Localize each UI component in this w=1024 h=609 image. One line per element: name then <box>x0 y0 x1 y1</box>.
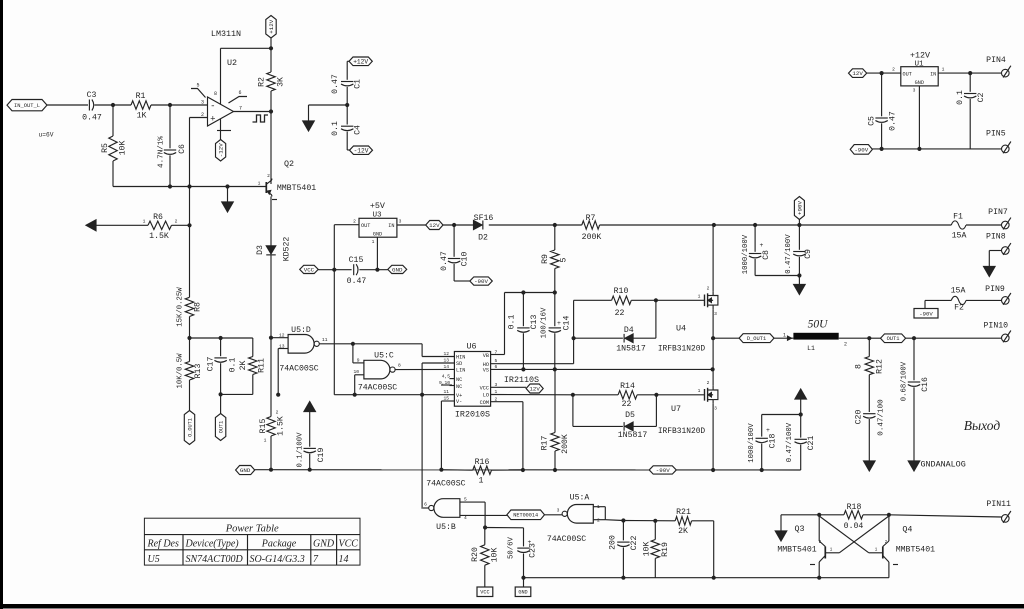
wire Q2 emitter to D3 <box>270 197 272 246</box>
svg-text:F1: F1 <box>953 213 963 222</box>
capacitor C17 <box>207 338 238 394</box>
port D_OUT1 <box>739 334 774 343</box>
power port +12V at C1 <box>349 57 372 66</box>
svg-text:C2: C2 <box>977 93 986 103</box>
svg-text:C17: C17 <box>207 357 216 372</box>
svg-text:3: 3 <box>399 219 402 225</box>
svg-text:R13: R13 <box>194 364 203 379</box>
port OUT1 inline <box>869 334 1001 343</box>
svg-text:R8: R8 <box>194 302 203 312</box>
wire U5B input5 RC <box>460 502 524 530</box>
svg-text:1: 1 <box>942 67 945 73</box>
svg-text:14: 14 <box>339 554 349 565</box>
sheet left border <box>0 0 3 609</box>
svg-text:R18: R18 <box>847 503 862 512</box>
transistor Q3 MMBT5401 <box>777 515 839 578</box>
net port NET00014 <box>507 510 545 520</box>
svg-text:0.1: 0.1 <box>956 90 965 105</box>
svg-text:R14: R14 <box>620 382 635 391</box>
svg-text:NET00014: NET00014 <box>513 513 538 519</box>
power port -12V below U2 <box>216 140 226 162</box>
svg-text:COM: COM <box>480 400 489 406</box>
svg-text:1: 1 <box>698 294 701 300</box>
svg-text:R21: R21 <box>676 508 691 517</box>
svg-text:+12V: +12V <box>353 59 368 66</box>
wire VCC pin to 12V port <box>491 386 526 388</box>
svg-text:1: 1 <box>783 333 786 339</box>
svg-text:74AC00SC: 74AC00SC <box>426 480 465 489</box>
svg-text:2: 2 <box>175 219 178 225</box>
svg-text:R9: R9 <box>541 254 550 264</box>
svg-text:2: 2 <box>353 219 356 225</box>
capacitor C10 <box>440 225 470 281</box>
wire U5C input10 <box>353 375 364 397</box>
wire SD net vertical <box>422 363 454 509</box>
resistor R19 <box>643 521 671 578</box>
svg-text:4,5: 4,5 <box>442 373 451 379</box>
svg-text:0.47/100V: 0.47/100V <box>786 422 794 462</box>
resistor R5 <box>101 105 128 187</box>
wire U5B input4 to NET00014 <box>460 514 507 516</box>
svg-text:C9: C9 <box>804 249 813 259</box>
svg-text:0.47: 0.47 <box>440 251 449 271</box>
wire bootstrap node <box>491 290 557 354</box>
wire V- down <box>439 401 454 472</box>
svg-text:PIN5: PIN5 <box>986 130 1006 139</box>
arrow up at C21 <box>795 389 807 415</box>
svg-text:SD: SD <box>456 361 462 367</box>
svg-text:0.1: 0.1 <box>508 315 517 330</box>
op-amp U2 LM311N <box>191 29 247 131</box>
diode D3 KD522 <box>256 237 292 262</box>
svg-text:O_OUT1: O_OUT1 <box>187 418 193 437</box>
svg-text:D5: D5 <box>625 411 635 420</box>
resistor R14 <box>573 382 659 409</box>
svg-text:D_OUT1: D_OUT1 <box>747 336 766 342</box>
capacitor C9 <box>785 225 813 295</box>
svg-text:200K: 200K <box>561 434 570 454</box>
port 12V at U6 <box>526 384 543 393</box>
resistor R7 <box>582 214 602 242</box>
svg-text:R19: R19 <box>661 542 670 557</box>
wire R18 right node to PIN11 <box>863 513 1002 517</box>
svg-text:5: 5 <box>196 83 199 89</box>
NAND gate U5:C <box>353 352 401 393</box>
svg-text:MMBT5401: MMBT5401 <box>277 184 316 193</box>
svg-text:10: 10 <box>353 369 359 375</box>
wire lower gate <box>656 394 704 396</box>
svg-text:R16: R16 <box>475 458 490 467</box>
svg-text:VCC: VCC <box>339 539 359 550</box>
svg-text:10K: 10K <box>643 542 652 557</box>
capacitor C23 <box>508 528 538 587</box>
svg-text:1: 1 <box>143 219 146 225</box>
svg-text:Ref Des: Ref Des <box>147 539 179 550</box>
wire -90V bottom U1 <box>872 148 1001 150</box>
svg-text:3: 3 <box>557 508 560 514</box>
svg-text:GND: GND <box>240 467 251 474</box>
svg-text:6: 6 <box>238 90 241 96</box>
svg-text:0.47: 0.47 <box>82 114 102 123</box>
svg-text:0.1/100V: 0.1/100V <box>297 432 305 468</box>
svg-text:NC: NC <box>456 377 462 383</box>
capacitor C13 <box>508 293 549 372</box>
svg-text:NC: NC <box>456 384 462 390</box>
svg-text:2: 2 <box>707 380 710 386</box>
svg-text:1.5K: 1.5K <box>149 232 169 241</box>
svg-text:+12V: +12V <box>910 51 930 61</box>
svg-text:-90V: -90V <box>919 310 933 317</box>
svg-text:0.47: 0.47 <box>331 74 340 94</box>
wire ground net <box>255 468 801 472</box>
capacitor C5 <box>868 73 898 151</box>
svg-text:2: 2 <box>276 410 279 416</box>
svg-text:5: 5 <box>495 358 498 364</box>
svg-text:IN_OUT_L: IN_OUT_L <box>14 103 40 109</box>
NAND gate U5:A <box>547 494 600 545</box>
port GND boxed <box>515 587 531 597</box>
gate driver U6 IR2010S <box>439 342 539 420</box>
resistor R16 <box>441 458 523 486</box>
svg-text:12V: 12V <box>852 70 863 77</box>
svg-text:1: 1 <box>372 239 375 245</box>
svg-text:V-: V- <box>456 399 462 405</box>
svg-text:50U: 50U <box>808 319 829 331</box>
wire C17 R11 bottom <box>219 392 253 413</box>
svg-text:22: 22 <box>615 309 625 318</box>
svg-text:C5: C5 <box>868 116 877 126</box>
svg-text:100/16V: 100/16V <box>541 307 549 338</box>
inductor L1 50U <box>774 319 871 352</box>
svg-text:1: 1 <box>698 388 701 394</box>
svg-text:C6: C6 <box>178 144 187 154</box>
svg-text:8: 8 <box>855 364 864 369</box>
port 12V at U1 <box>849 67 901 78</box>
svg-text:GND: GND <box>373 231 382 237</box>
svg-text:OUT1: OUT1 <box>218 421 224 433</box>
diode D5 1N5817 <box>573 395 657 440</box>
svg-text:PIN8: PIN8 <box>986 233 1006 242</box>
svg-text:GND: GND <box>392 266 403 273</box>
svg-text:12V: 12V <box>429 222 440 229</box>
wire U2 pin8 to +12V <box>221 48 272 104</box>
svg-text:0.47: 0.47 <box>347 277 367 286</box>
port VCC boxed <box>477 587 493 597</box>
svg-text:-90V: -90V <box>656 467 670 474</box>
wire LO to lower gate <box>491 393 575 397</box>
svg-text:10K: 10K <box>491 548 500 563</box>
wire U2 output node <box>234 109 274 113</box>
wire U5D input13 <box>278 349 288 395</box>
power port -12V at C4 <box>350 146 373 154</box>
wire D2 to R7 <box>489 223 582 227</box>
svg-text:VCC: VCC <box>304 266 315 273</box>
svg-text:+5V: +5V <box>370 201 385 211</box>
svg-text:3K: 3K <box>277 77 286 87</box>
svg-text:8: 8 <box>398 363 401 369</box>
svg-text:3: 3 <box>714 311 717 317</box>
label Vyhod <box>964 418 1001 433</box>
port -90V inline <box>649 466 676 474</box>
svg-text:+90V: +90V <box>796 201 803 215</box>
svg-text:1: 1 <box>258 181 261 187</box>
svg-text:2K: 2K <box>239 361 248 371</box>
svg-text:2: 2 <box>892 67 895 73</box>
power port -90V boxed <box>914 309 938 319</box>
svg-text:D2: D2 <box>478 233 488 242</box>
svg-text:C10: C10 <box>461 252 470 267</box>
resistor R13 <box>177 353 204 411</box>
svg-text:0.47/100V: 0.47/100V <box>785 234 793 274</box>
transistor Q4 MMBT5401 <box>869 515 935 578</box>
resistor R12 <box>855 338 885 412</box>
svg-text:Device(Type): Device(Type) <box>185 539 240 550</box>
svg-text:U5:D: U5:D <box>291 326 311 335</box>
wire U4 drain <box>712 225 714 291</box>
resistor R1 <box>131 92 151 121</box>
svg-text:C22: C22 <box>630 536 639 551</box>
port GND left <box>236 466 255 475</box>
svg-text:2K: 2K <box>678 527 688 536</box>
terminal PIN11 <box>986 500 1011 523</box>
wire U5D input12 <box>271 337 288 339</box>
svg-text:15K/0.25W: 15K/0.25W <box>177 287 185 327</box>
svg-text:U7: U7 <box>671 404 681 414</box>
svg-text:U5:A: U5:A <box>570 494 590 503</box>
terminal PIN4 <box>986 56 1011 78</box>
svg-text:Power Table: Power Table <box>225 523 279 534</box>
svg-text:-12V: -12V <box>218 143 225 157</box>
wire bottom gnd net <box>524 576 889 580</box>
wire left rail node <box>187 336 191 340</box>
svg-text:-12V: -12V <box>354 147 369 154</box>
wire U5C output to LIN <box>395 368 454 370</box>
wire U1 IN to PIN4 <box>938 71 1001 75</box>
svg-text:U1: U1 <box>914 60 924 68</box>
svg-text:-: - <box>210 101 215 111</box>
svg-text:LO: LO <box>483 393 489 399</box>
wire output to Q2 collector <box>270 112 272 182</box>
svg-text:C21: C21 <box>807 436 816 451</box>
wire U3 OUT rail <box>332 225 359 395</box>
wire R21 down to gnd wire <box>692 521 716 580</box>
transistor Q2 MMBT5401 <box>258 159 317 200</box>
svg-text:F2: F2 <box>954 304 964 313</box>
svg-text:3: 3 <box>201 99 204 105</box>
svg-text:+12V: +12V <box>268 19 275 33</box>
wire C1 C4 midpoint to ground arrow <box>303 103 350 131</box>
svg-text:PIN10: PIN10 <box>984 322 1009 331</box>
label GNDANALOG <box>921 460 966 470</box>
svg-text:GND: GND <box>915 80 924 86</box>
svg-text:U4: U4 <box>676 324 686 334</box>
svg-text:1000/100V: 1000/100V <box>742 234 750 274</box>
resistor R10 <box>574 287 658 318</box>
svg-text:3: 3 <box>714 406 717 412</box>
svg-text:Q4: Q4 <box>902 525 912 535</box>
svg-text:R10: R10 <box>614 287 629 296</box>
wire U5D output to HIN <box>319 342 454 357</box>
wire R18 left node <box>775 513 844 541</box>
svg-text:22: 22 <box>622 400 632 409</box>
wire 12V to D2 <box>443 223 474 227</box>
svg-text:GNDANALOG: GNDANALOG <box>921 460 966 470</box>
svg-text:R5: R5 <box>101 143 110 153</box>
svg-text:4.7N/1%: 4.7N/1% <box>158 136 166 168</box>
svg-text:15A: 15A <box>951 286 966 295</box>
svg-text:2: 2 <box>844 342 847 348</box>
capacitor C14 <box>549 293 572 372</box>
svg-text:2: 2 <box>597 518 600 524</box>
regulator U3 +5V <box>353 201 402 245</box>
power table <box>144 518 360 565</box>
svg-text:VCC: VCC <box>480 386 489 392</box>
terminal PIN9 <box>985 285 1011 305</box>
svg-text:2: 2 <box>707 286 710 292</box>
resistor R2 <box>258 48 286 111</box>
port -90V at U1 <box>850 145 872 155</box>
terminal PIN5 <box>986 130 1011 154</box>
wire input node to R21 <box>621 518 675 523</box>
wire HO to upper gate <box>491 300 576 363</box>
svg-text:SF16: SF16 <box>474 214 494 223</box>
svg-text:U5: U5 <box>148 554 160 565</box>
svg-text:10K: 10K <box>119 141 128 156</box>
svg-text:+: + <box>760 242 764 249</box>
terminal PIN7 <box>988 208 1011 229</box>
svg-text:R7: R7 <box>586 214 596 223</box>
wire +90V rail top <box>600 223 952 227</box>
svg-text:Q3: Q3 <box>794 524 804 534</box>
svg-text:VS: VS <box>483 368 489 374</box>
svg-text:-90V: -90V <box>474 278 488 285</box>
capacitor C3 <box>82 91 102 123</box>
svg-text:R15: R15 <box>259 419 268 434</box>
svg-text:IN: IN <box>930 72 936 78</box>
svg-text:1N5817: 1N5817 <box>618 431 648 440</box>
wire R1 to U2 inverting input <box>151 103 208 107</box>
svg-text:OUT1: OUT1 <box>887 336 900 342</box>
wire U7 source <box>711 404 715 472</box>
svg-text:+: + <box>210 114 215 124</box>
svg-text:5: 5 <box>560 257 569 262</box>
svg-text:R20: R20 <box>471 547 480 562</box>
svg-text:15A: 15A <box>952 232 967 241</box>
wire NET00014 to U5A output <box>545 508 563 515</box>
svg-text:74AC00SC: 74AC00SC <box>547 535 586 544</box>
wire VS switch node <box>491 367 715 371</box>
ground arrow at feedback node <box>222 187 234 213</box>
svg-text:KD522: KD522 <box>283 237 292 262</box>
svg-text:V+: V+ <box>456 393 462 399</box>
svg-text:0.1: 0.1 <box>229 358 238 373</box>
capacitor C18 <box>748 415 801 473</box>
svg-text:u=6V: u=6V <box>39 132 54 139</box>
wire U5B output to SD <box>423 507 429 509</box>
NAND gate U5:B <box>424 480 467 533</box>
terminal PIN8 with ground arrow <box>984 233 1011 277</box>
svg-text:10K/0.5W: 10K/0.5W <box>177 353 185 389</box>
svg-text:3: 3 <box>913 88 916 94</box>
svg-text:11: 11 <box>322 337 328 343</box>
port 12V inline <box>426 221 443 230</box>
svg-text:D3: D3 <box>256 245 265 255</box>
svg-text:C19: C19 <box>317 448 326 463</box>
svg-text:R17: R17 <box>541 436 550 451</box>
svg-text:Выход: Выход <box>964 418 1001 433</box>
wire U5A inputs tied <box>593 507 623 521</box>
svg-text:C8: C8 <box>762 250 771 260</box>
svg-text:12V: 12V <box>529 386 540 393</box>
port O_OUT1 <box>184 411 194 445</box>
svg-text:7: 7 <box>495 350 498 356</box>
wire U4 source to VS <box>711 309 715 369</box>
svg-text:R11: R11 <box>258 358 267 373</box>
mosfet U7 IRFB31N20D <box>658 380 718 436</box>
svg-text:C1: C1 <box>354 79 363 89</box>
capacitor C20 <box>855 399 886 471</box>
port IN_OUT_L <box>7 100 47 111</box>
svg-text:200: 200 <box>609 535 618 550</box>
resistor R20 <box>471 528 500 588</box>
svg-text:0.47: 0.47 <box>889 111 898 131</box>
svg-text:LM311N: LM311N <box>211 29 241 39</box>
svg-text:GND: GND <box>518 590 527 596</box>
svg-text:11: 11 <box>443 389 449 395</box>
wire U2 pin4 to -12V <box>220 119 222 140</box>
wire U5C input9 <box>353 344 364 363</box>
svg-text:IR2010S: IR2010S <box>455 410 490 420</box>
wire upper gate <box>656 299 704 301</box>
wire COM down <box>491 402 525 472</box>
capacitor C15 <box>347 256 388 286</box>
wire node to C17 R11 <box>190 336 253 340</box>
svg-text:SO-G14/G3.3: SO-G14/G3.3 <box>250 554 305 565</box>
svg-text:PIN11: PIN11 <box>986 500 1011 509</box>
svg-text:0.1: 0.1 <box>331 121 340 136</box>
wire U1 GND pin <box>917 86 921 151</box>
wire noninverting input <box>190 118 208 298</box>
resistor R17 <box>541 369 571 472</box>
capacitor C2 <box>956 73 986 149</box>
svg-text:R1: R1 <box>136 92 146 101</box>
mosfet U4 IRFB31N20D <box>658 286 718 354</box>
capacitor C4 <box>331 105 363 150</box>
svg-text:74AC00SC: 74AC00SC <box>279 365 318 374</box>
svg-text:Package: Package <box>261 539 297 550</box>
svg-text:50/6V: 50/6V <box>508 536 516 559</box>
resistor R6 <box>86 213 192 241</box>
svg-text:1N5817: 1N5817 <box>616 345 646 354</box>
power port +90V <box>794 197 804 226</box>
port GND at C15 <box>388 265 407 273</box>
port -90V at C10 <box>470 277 493 285</box>
resistor R21 <box>675 508 691 536</box>
svg-text:R6: R6 <box>153 213 163 222</box>
fuse F1 15A <box>951 213 1001 241</box>
wire F2 to -90V <box>925 300 951 308</box>
svg-text:7: 7 <box>239 106 242 112</box>
svg-text:PIN7: PIN7 <box>988 208 1008 217</box>
svg-text:VCC: VCC <box>480 590 489 596</box>
svg-text:SN74ACT00D: SN74ACT00D <box>186 554 244 565</box>
svg-text:1: 1 <box>264 438 267 444</box>
svg-text:GND: GND <box>313 539 335 550</box>
resistor R18 <box>844 503 864 531</box>
svg-text:2: 2 <box>267 173 270 179</box>
svg-text:R2: R2 <box>258 77 267 87</box>
svg-text:R12: R12 <box>876 359 885 374</box>
